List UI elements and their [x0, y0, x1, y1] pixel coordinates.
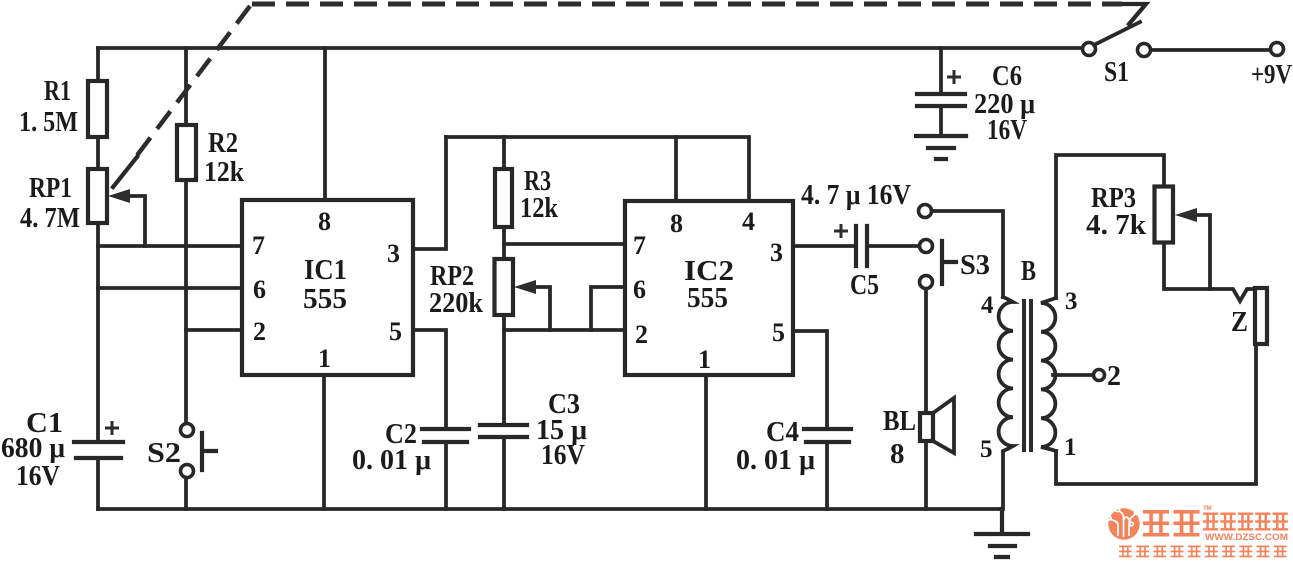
wire IC2 top supply line with pin4 stem [446, 137, 749, 201]
resistor R3 [495, 169, 512, 227]
svg-text:1: 1 [698, 345, 711, 374]
wire RP3 bottom to Z with V notch [1164, 242, 1255, 301]
potentiometer RP2 wiper arrow [514, 280, 536, 294]
wire RP2 wiper to pin2 net [535, 287, 550, 330]
svg-text:4: 4 [981, 292, 994, 319]
potentiometer RP1 body [88, 169, 107, 223]
svg-text:BL: BL [883, 405, 916, 437]
wire C5 to S3 middle terminal [867, 244, 919, 248]
svg-text:7: 7 [252, 231, 265, 260]
logo icon circuit sprig [1107, 507, 1139, 537]
logo slogan char 9 [1257, 546, 1270, 558]
svg-text:RP1: RP1 [29, 172, 72, 204]
dashed mechanical link diagonal to RP1 [135, 6, 250, 158]
logo slogan char 10 [1274, 546, 1287, 558]
logo slogan char 2 [1136, 546, 1149, 558]
svg-text:16V: 16V [987, 114, 1027, 146]
svg-text:B: B [1021, 256, 1036, 287]
svg-text:2: 2 [1107, 361, 1121, 392]
logo slogan char 4 [1171, 546, 1184, 558]
wire IC1 pin5 down to C2 [413, 330, 446, 429]
svg-text:555: 555 [687, 282, 728, 314]
logo char shi [1238, 513, 1253, 531]
wire R1 to RP1 [96, 137, 100, 169]
transformer B core [1024, 299, 1031, 452]
wire IC2 pin7 [504, 242, 625, 246]
switch S2 contact circles [181, 424, 194, 437]
wire IC1 pin2 [186, 328, 242, 332]
wire C4 to bottom rail [825, 442, 829, 509]
wire IC2 pin2 [504, 328, 625, 332]
wire IC2 pin5 down to C4 [793, 331, 827, 429]
wire IC2 pin3 to C5 [793, 244, 856, 248]
svg-text:0. 01 μ: 0. 01 μ [352, 444, 432, 476]
wire RP1 wiper to pin7 net [129, 196, 145, 246]
potentiometer RP3 wiper arrow [1175, 208, 1197, 222]
svg-text:S3: S3 [960, 249, 990, 281]
dashed mechanical link horizontal [252, 2, 1122, 7]
switch S2 pushbutton actuator [202, 433, 216, 470]
ground symbol below C6 [916, 136, 966, 159]
wire IC2 pin8 stem [674, 137, 678, 201]
logo char wang [1273, 513, 1288, 531]
logo char chang [1255, 513, 1270, 531]
wire IC2 pin1 stem to bottom rail [704, 375, 708, 509]
wire IC1 pin1 stem to bottom rail [322, 375, 326, 509]
terminal +9V [1271, 43, 1284, 56]
logo slogan char 7 [1222, 546, 1235, 558]
potentiometer RP1 wiper arrow [108, 189, 130, 203]
svg-text:TM: TM [1203, 506, 1212, 512]
wire speaker to bottom rail [924, 441, 928, 509]
svg-text:IC1: IC1 [304, 254, 347, 286]
logo slogan char 1 [1119, 546, 1132, 558]
wire C6 bottom stem to ground [939, 106, 943, 136]
svg-text:2: 2 [635, 320, 648, 349]
switch S1 mechanical link arrow [1121, 4, 1146, 24]
resistor R1 [88, 81, 107, 137]
wire IC1 pin3 up to IC2 supply node [413, 137, 446, 249]
wire IC1 pin6 [98, 286, 242, 290]
svg-text:7: 7 [633, 231, 646, 260]
logo slogan char 8 [1239, 546, 1252, 558]
svg-text:220k: 220k [429, 287, 484, 319]
svg-text:8: 8 [890, 438, 905, 470]
svg-text:3: 3 [1065, 288, 1078, 315]
svg-text:S1: S1 [1104, 56, 1129, 88]
transformer B primary winding pin4-pin5 [999, 297, 1013, 509]
wire R2 bottom to S2 [184, 180, 188, 423]
potentiometer RP3 body [1155, 187, 1174, 243]
capacitor C5 polarity plus [834, 224, 848, 238]
wire S2 to bottom rail [184, 478, 188, 509]
wire top supply rail [98, 46, 1083, 50]
wire C1 to bottom rail [96, 458, 100, 509]
svg-text:3: 3 [770, 238, 783, 267]
speaker BL [920, 413, 933, 441]
svg-text:12k: 12k [204, 156, 245, 188]
svg-text:R2: R2 [208, 127, 238, 159]
potentiometer RP2 body [495, 259, 514, 315]
svg-text:R1: R1 [44, 75, 71, 107]
svg-text:+9V: +9V [1251, 59, 1292, 89]
switch S3 pushbutton actuator [942, 241, 956, 284]
logo slogan char 6 [1205, 546, 1218, 558]
resistor R2 [177, 125, 196, 180]
link line solid end at RP1 [113, 157, 137, 187]
logo char ku [1174, 510, 1200, 537]
wire RP1 to C1 [96, 223, 100, 442]
svg-text:12k: 12k [520, 192, 559, 224]
logo char dian [1203, 513, 1218, 531]
svg-text:C5: C5 [850, 269, 879, 301]
svg-text:WWW.DZSC.COM: WWW.DZSC.COM [1205, 532, 1288, 543]
wire RP2 to C3 [502, 314, 506, 425]
logo slogan char 5 [1188, 546, 1201, 558]
wire Z bottom loop to secondary pin1 [1056, 344, 1256, 484]
wire IC1 pin7 [98, 244, 242, 248]
wire R3 to RP2 [502, 227, 506, 260]
op-amp IC2 555 box [625, 201, 793, 375]
ground symbol main [976, 509, 1028, 557]
capacitor C3 plates [480, 425, 527, 437]
capacitor C5 plates [856, 226, 867, 266]
svg-text:16V: 16V [541, 439, 585, 471]
wire IC2 pin6 loop [591, 287, 625, 330]
svg-text:8: 8 [318, 207, 331, 236]
transformer B center tap pin2 [1053, 373, 1093, 377]
svg-text:S2: S2 [147, 437, 181, 469]
logo slogan char 3 [1153, 546, 1166, 558]
wire S3 bottom terminal down to speaker [924, 288, 928, 413]
svg-text:555: 555 [303, 283, 347, 315]
svg-text:5: 5 [389, 317, 402, 346]
wire R2 top stem [184, 48, 188, 125]
wire left rail upper (rail to R1) [96, 48, 100, 81]
svg-text:4. 7M: 4. 7M [20, 202, 80, 234]
svg-text:4: 4 [742, 207, 755, 236]
svg-text:4. 7 μ 16V: 4. 7 μ 16V [801, 179, 911, 211]
wire C6 top stem [939, 48, 943, 94]
wire RP3 wiper down to bottom net [1197, 215, 1210, 289]
svg-text:3: 3 [387, 239, 400, 268]
wire IC1 pin8 stem [323, 48, 327, 200]
capacitor C6 polarity plus [947, 70, 961, 84]
svg-text:5: 5 [772, 318, 785, 347]
svg-text:2: 2 [253, 317, 266, 346]
capacitor C2 plates [422, 429, 469, 442]
svg-text:1: 1 [318, 344, 331, 373]
logo char zi [1220, 513, 1235, 531]
wire bottom ground rail [98, 507, 1002, 511]
switch S1 contact circles [1083, 43, 1096, 56]
capacitor C1 polarity plus [105, 421, 119, 435]
svg-text:6: 6 [633, 275, 646, 304]
svg-text:8: 8 [670, 209, 683, 238]
wire S3 top terminal to transformer pin4 [932, 211, 1003, 297]
wire top rail right segment to +9V [1150, 48, 1271, 52]
svg-text:1: 1 [1064, 434, 1077, 461]
svg-text:Z: Z [1231, 306, 1248, 338]
switch S3 contact circles [919, 205, 932, 218]
svg-text:6: 6 [253, 275, 266, 304]
wire C2 to bottom rail [444, 442, 448, 509]
switch S1 blade [1094, 22, 1140, 45]
svg-text:0. 01 μ: 0. 01 μ [736, 444, 816, 476]
wire C3 to bottom rail [502, 437, 506, 509]
capacitor C6 plates [917, 94, 965, 106]
logo icon circle [1108, 508, 1139, 539]
svg-text:1. 5M: 1. 5M [19, 106, 78, 138]
wire secondary top to RP3 [1056, 155, 1164, 298]
logo char wei [1143, 510, 1169, 537]
piezo sounder Z [1255, 288, 1267, 344]
svg-text:4. 7k: 4. 7k [1086, 209, 1147, 241]
svg-text:5: 5 [980, 436, 993, 463]
svg-text:16V: 16V [16, 460, 60, 492]
wire R3 top stem [502, 137, 506, 169]
capacitor C1 plates [74, 442, 123, 458]
transformer B secondary winding pin3-pin1 [1041, 298, 1056, 451]
capacitor C4 plates [804, 429, 851, 442]
op-amp IC1 555 box [242, 200, 413, 375]
